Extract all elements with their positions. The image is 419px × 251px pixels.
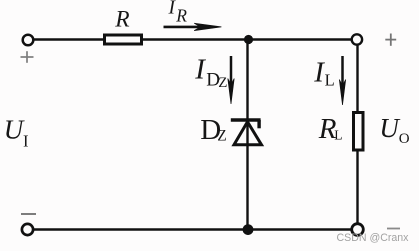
- node junction bottom: [243, 224, 254, 235]
- svg-text:U: U: [4, 114, 25, 144]
- arrow I_L: [341, 56, 344, 89]
- wire bottom horizontal: [34, 228, 352, 230]
- terminal bottom-right: [352, 224, 364, 236]
- svg-text:Z: Z: [218, 75, 227, 91]
- wire top horizontal: [34, 38, 352, 40]
- resistor R: [105, 35, 142, 44]
- terminal top-left: [23, 35, 34, 46]
- minus sign bottom-left: [21, 213, 36, 215]
- node junction top: [244, 35, 253, 44]
- terminal top-right: [352, 34, 362, 44]
- svg-text:L: L: [325, 71, 335, 90]
- anode triangle: [234, 122, 262, 145]
- arrow I_R: [164, 26, 214, 29]
- cathode bar: [231, 118, 261, 121]
- svg-text:I: I: [23, 131, 29, 150]
- svg-text:I: I: [313, 56, 325, 88]
- svg-text:U: U: [379, 113, 400, 143]
- arrow I_DZ: [230, 56, 233, 88]
- plus sign top-right: [385, 34, 396, 46]
- svg-text:CSDN @Cranx: CSDN @Cranx: [337, 232, 410, 244]
- wire right branch upper: [356, 45, 358, 113]
- svg-text:I: I: [194, 54, 206, 86]
- plus sign top-left: [21, 51, 34, 63]
- zener diode D_Z: [231, 120, 262, 145]
- svg-text:Z: Z: [217, 128, 226, 145]
- svg-text:R: R: [175, 6, 187, 26]
- svg-text:R: R: [114, 7, 129, 33]
- resistor R_L: [354, 113, 364, 151]
- terminal bottom-left: [22, 224, 33, 235]
- minus sign bottom-right: [387, 228, 400, 230]
- wire zener branch vertical: [246, 40, 248, 230]
- cathode tick: [257, 120, 260, 128]
- svg-text:L: L: [334, 128, 342, 143]
- wire right branch lower: [356, 150, 358, 224]
- svg-text:O: O: [399, 131, 410, 147]
